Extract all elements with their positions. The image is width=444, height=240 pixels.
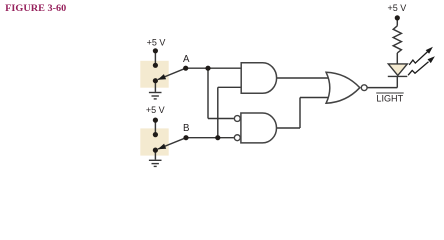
svg-text:FIGURE 3-60: FIGURE 3-60: [5, 3, 66, 14]
svg-text:LIGHT: LIGHT: [376, 94, 403, 104]
svg-text:B: B: [183, 123, 189, 134]
svg-text:+5 V: +5 V: [146, 105, 165, 115]
svg-text:+5 V: +5 V: [388, 3, 407, 13]
svg-text:+5 V: +5 V: [147, 37, 166, 47]
svg-text:A: A: [183, 54, 190, 65]
